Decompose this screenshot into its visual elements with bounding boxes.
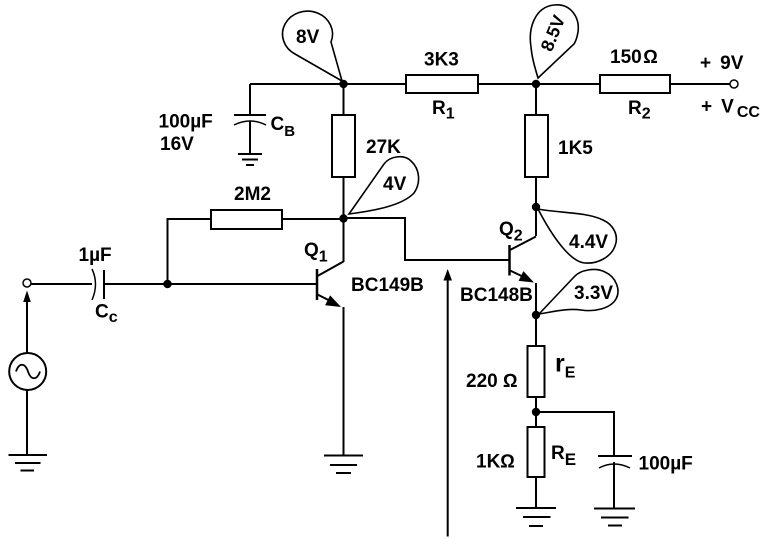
capacitor CE 100uF (598, 456, 632, 468)
wire CB branch bottom (249, 121, 251, 154)
wire rE to RE (535, 397, 537, 427)
node dot 4V node (339, 214, 347, 222)
input terminal circle (23, 279, 31, 287)
node dot Q2 collector (532, 203, 540, 211)
resistor 1K5 (525, 115, 548, 177)
wire bypass branch (536, 412, 614, 456)
resistor 27K (332, 115, 355, 177)
callout balloon 3.3V (539, 270, 618, 314)
svg-text:27K: 27K (366, 137, 401, 158)
ground 100uF (594, 509, 635, 526)
svg-text:+ 9V: + 9V (700, 53, 744, 74)
wire RE bottom (535, 477, 537, 508)
wire 1K5 bottom (535, 177, 537, 207)
source V1 (9, 353, 46, 390)
wire node A to Q2 base (344, 218, 509, 260)
svg-text:1KΩ: 1KΩ (476, 452, 515, 473)
resistor rE 220ohm (528, 346, 545, 397)
wire Q1 collector to node (343, 218, 345, 262)
wire 1K5 top (535, 84, 537, 115)
resistor RE 1Kohm (528, 427, 545, 477)
svg-text:8V: 8V (296, 27, 320, 48)
wire 27K bottom (343, 177, 345, 219)
node dot junction top-left (339, 80, 347, 88)
wire input to Cc (31, 283, 92, 285)
resistor R1 3K3 (406, 75, 478, 93)
resistor 2M2 (211, 210, 282, 229)
svg-text:100µF: 100µF (639, 454, 693, 475)
svg-text:1K5: 1K5 (558, 138, 593, 159)
callout balloon 4V (349, 157, 419, 214)
input arrow up (23, 291, 31, 303)
transistor Q1 (317, 262, 344, 308)
wire source to ground (26, 390, 28, 455)
wire Q1 emitter down (343, 307, 345, 455)
ground RE (516, 508, 556, 526)
callout balloon 4.4V (538, 209, 616, 263)
node dot junction top-mid (532, 80, 540, 88)
wire Q2 emitter vertical (535, 283, 537, 315)
svg-text:3.3V: 3.3V (574, 283, 613, 304)
svg-text:BC149B: BC149B (351, 275, 424, 296)
resistor R2 150ohm (600, 75, 670, 93)
capacitor CB (234, 115, 266, 125)
wire Cc to Q1 base (104, 283, 316, 285)
svg-text:2M2: 2M2 (234, 184, 271, 205)
callout balloon 8.5V (530, 5, 578, 78)
capacitor Cc (92, 269, 104, 300)
svg-text:220 Ω: 220 Ω (466, 371, 518, 392)
svg-text:BC148B: BC148B (460, 285, 533, 306)
callout balloon 8V (283, 11, 342, 81)
ground source (9, 455, 48, 471)
transistor Q2 (510, 237, 537, 283)
node dot RE top (532, 408, 540, 416)
svg-text:150 Ω: 150 Ω (610, 47, 658, 68)
svg-text:4.4V: 4.4V (569, 232, 608, 253)
wire Q2 collector vertical (535, 207, 537, 236)
node dot input junction (163, 280, 171, 288)
wire top rail (250, 83, 734, 85)
svg-text:3K3: 3K3 (424, 50, 459, 71)
wire 100uF bottom (613, 462, 615, 508)
svg-text:100µF: 100µF (159, 112, 213, 133)
wire rE top (535, 315, 537, 346)
wire source arrow shaft (26, 300, 28, 353)
ground CB (238, 154, 262, 165)
wire 2M2 left vertical (168, 219, 212, 284)
signal arrow big (443, 269, 452, 537)
wire 2M2 right (282, 218, 344, 220)
wire 27K top (343, 84, 345, 116)
wire CB branch top (249, 84, 251, 115)
svg-text:16V: 16V (160, 134, 194, 155)
svg-text:4V: 4V (383, 174, 407, 195)
node dot Q2 emitter (532, 311, 540, 319)
svg-text:1µF: 1µF (79, 245, 112, 266)
Vcc terminal circle (730, 80, 738, 88)
ground Q1 emitter (324, 456, 363, 474)
